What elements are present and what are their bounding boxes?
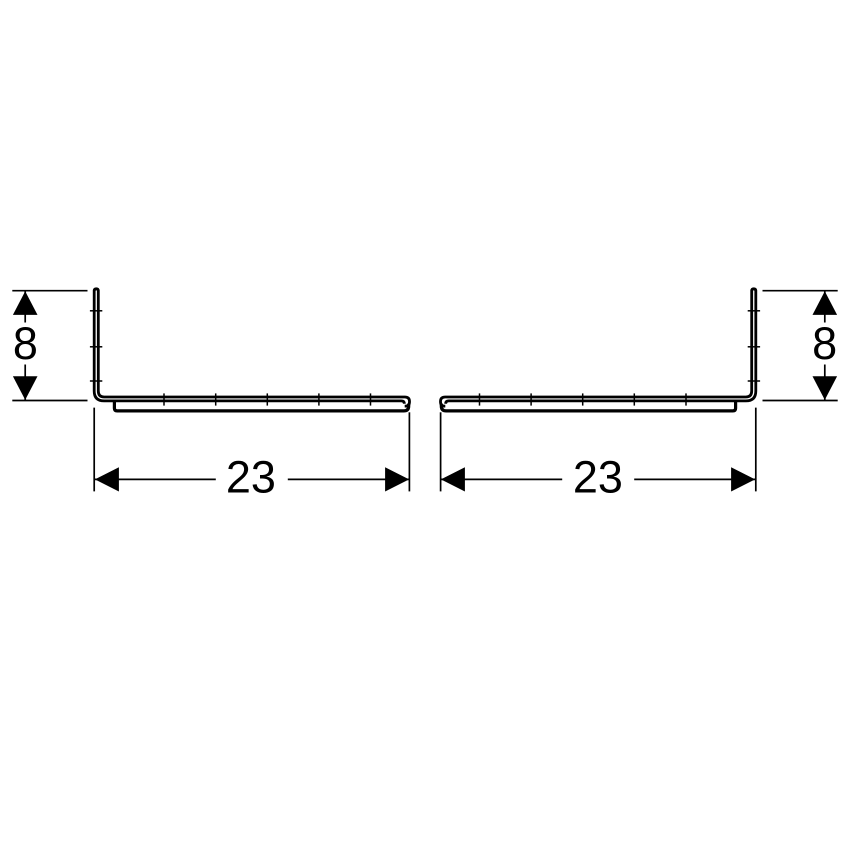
left bracket (12, 289, 409, 492)
svg-text:8: 8 (13, 318, 38, 369)
right bracket (mirrored) (441, 289, 838, 492)
svg-text:23: 23 (573, 452, 623, 503)
svg-text:23: 23 (226, 452, 276, 503)
svg-text:8: 8 (812, 318, 837, 369)
